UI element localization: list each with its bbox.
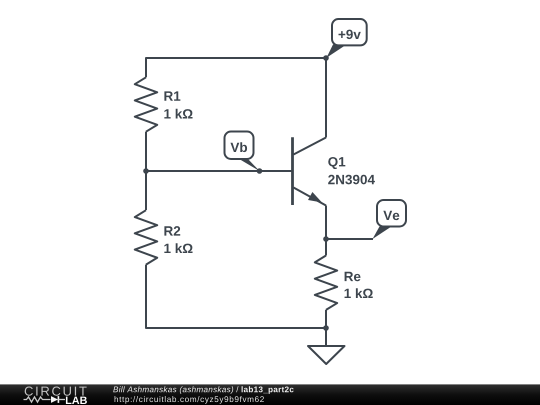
transistor Q1 bbox=[291, 137, 294, 205]
wire R2 bottom + ground rail bbox=[146, 265, 326, 328]
label Ve bbox=[383, 211, 399, 220]
value R2 = 1 kΩ bbox=[164, 243, 192, 253]
callout +9v bbox=[327, 45, 346, 58]
node junction dot ground bbox=[323, 325, 329, 331]
label Vb bbox=[230, 142, 247, 152]
wire node A to R2 bbox=[145, 171, 147, 210]
wire Ve tap bbox=[326, 238, 373, 240]
value Re = 1 kΩ bbox=[345, 288, 373, 298]
resistor Re bbox=[315, 256, 337, 310]
wire Re bottom bbox=[325, 310, 327, 328]
node junction dot +9v bbox=[323, 55, 329, 61]
label Q1 bbox=[328, 157, 345, 169]
wire collector vertical bbox=[325, 58, 327, 138]
wire node Ve to Re bbox=[325, 239, 327, 256]
credit line 1 bbox=[113, 386, 233, 394]
logo LAB bbox=[66, 397, 87, 404]
wire R1 bottom to node A bbox=[145, 132, 147, 171]
wire top rail bbox=[146, 58, 326, 77]
value R1 = 1 kΩ bbox=[164, 109, 192, 119]
logo resistor zigzag bbox=[24, 397, 51, 402]
logo CIRCUIT bbox=[25, 387, 87, 396]
resistor R1 bbox=[135, 77, 157, 131]
callout Ve bbox=[373, 227, 392, 240]
label Re bbox=[345, 272, 361, 281]
wire base bbox=[146, 170, 293, 172]
credit line 2 (url text) bbox=[115, 396, 264, 404]
ground bbox=[325, 328, 327, 346]
node junction dot Vb bbox=[257, 168, 263, 174]
label +9v bbox=[339, 30, 361, 40]
node junction dot A bbox=[143, 168, 149, 174]
resistor R2 bbox=[135, 210, 157, 264]
node junction dot Ve bbox=[323, 236, 329, 242]
label R1 bbox=[164, 91, 180, 100]
label R2 bbox=[164, 226, 180, 235]
value Q1 = 2N3904 bbox=[328, 175, 375, 185]
footer bar bbox=[0, 384, 540, 405]
wire emitter vertical bbox=[325, 206, 327, 240]
logo diode bbox=[51, 396, 58, 403]
callout Vb bbox=[238, 158, 260, 171]
